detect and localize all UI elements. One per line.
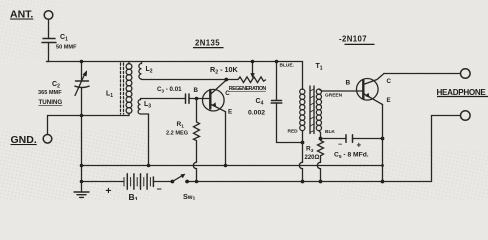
node R1-bottom junction: [195, 180, 199, 184]
node rail-bottom junction: [80, 180, 84, 184]
T1 core: [310, 86, 314, 134]
capacitor C2 (variable, tuning): [76, 80, 89, 82]
node rail-mid junction: [80, 164, 84, 168]
headphone terminal 1: [461, 69, 471, 79]
node C5-emitter junction: [381, 137, 385, 141]
svg-text:HEADPHONE: HEADPHONE: [437, 88, 487, 97]
node C2-top junction: [80, 60, 84, 64]
switch Sw1: [171, 180, 175, 184]
svg-text:GND.: GND.: [11, 134, 37, 146]
wire C2 to lower junction: [81, 88, 83, 116]
capacitor C3: [186, 94, 190, 103]
svg-text:ANT.: ANT.: [10, 9, 33, 21]
node tank bottom junction: [80, 114, 84, 118]
headphone terminal 2: [461, 111, 471, 121]
svg-text:−: −: [157, 184, 162, 194]
wire rail to T1 primary: [302, 62, 304, 90]
node collector-R2 junction: [224, 78, 228, 82]
svg-text:2N135: 2N135: [195, 39, 220, 48]
wire battery to left rail: [82, 181, 125, 183]
wire T1 primary return to bottom row: [299, 143, 302, 182]
capacitor C4: [271, 101, 282, 104]
svg-text:B: B: [194, 87, 199, 94]
svg-text:365 MMF: 365 MMF: [38, 90, 62, 96]
node R3-bottom junction: [319, 180, 323, 184]
wire rail to C4: [276, 62, 278, 101]
inductor L2: [141, 62, 143, 64]
resistor R3: [317, 139, 323, 182]
capacitor C5: [346, 135, 353, 142]
potentiometer R2 (regeneration): [238, 77, 266, 83]
wire T1 primary bottom lead: [302, 131, 304, 143]
wire to GND terminal: [48, 116, 82, 135]
node T1-return/bottom-row junction: [301, 180, 305, 184]
svg-text:C3 - 0.01: C3 - 0.01: [157, 86, 182, 93]
capacitor C5 wire: [321, 138, 383, 140]
node base-R1 junction: [195, 97, 199, 101]
transistor Q2 2N107: [357, 79, 379, 101]
wire L1 bottom: [82, 115, 130, 117]
svg-text:2.2 MEG: 2.2 MEG: [166, 131, 188, 137]
wire L3 top to C3: [141, 98, 186, 100]
svg-text:REGENERATION: REGENERATION: [229, 86, 267, 92]
svg-text:0.002: 0.002: [248, 110, 265, 117]
node emitter/bottom-row junction: [381, 180, 385, 184]
node emitter/mid-rail junction: [381, 164, 384, 167]
wire C1 to top rail: [47, 43, 49, 62]
mid rail wire: [82, 165, 383, 167]
node L3-rail junction: [147, 164, 151, 168]
svg-text:B: B: [346, 80, 351, 87]
transformer T1 primary: [300, 89, 305, 131]
wire collector Q2 to headphone: [384, 73, 460, 75]
capacitor C1: [42, 39, 56, 43]
node C4/T1-primary junction: [301, 141, 305, 145]
GND terminal: [43, 135, 52, 144]
wire emitter Q2 down: [382, 105, 384, 182]
wire ANT to C1: [48, 19, 50, 38]
inductor L1: [128, 62, 130, 65]
svg-text:E: E: [228, 109, 232, 116]
svg-text:C: C: [387, 78, 392, 85]
ground: [74, 192, 89, 197]
wire L3 bottom to mid rail: [141, 114, 149, 166]
transformer T1 secondary: [316, 89, 321, 131]
node C4-rail junction: [275, 60, 279, 64]
wire emitter Q1 down: [225, 112, 227, 166]
node emitter-rail junction: [224, 164, 228, 168]
wire C2 lead: [81, 62, 83, 82]
wire secondary top to base Q2: [319, 89, 362, 91]
core of antenna coil (dashed): [121, 63, 124, 114]
wire C4 to T1 bottom: [277, 103, 303, 143]
wire headphone return: [187, 116, 460, 182]
svg-text:50 MMF: 50 MMF: [56, 45, 77, 51]
svg-text:TUNING: TUNING: [39, 99, 63, 106]
svg-text:−: −: [338, 142, 342, 149]
inductor L3: [140, 99, 142, 100]
svg-text:+: +: [106, 186, 112, 197]
svg-text:+: +: [357, 141, 362, 150]
svg-text:GREEN: GREEN: [325, 93, 343, 99]
node secondary/R3/C5 junction: [319, 137, 323, 141]
wire L2 to R2: [142, 79, 239, 81]
svg-text:BLUE.: BLUE.: [280, 63, 294, 69]
svg-text:RED: RED: [288, 129, 299, 135]
top rail wire: [47, 61, 303, 63]
node R2 wiper-rail junction: [251, 60, 255, 64]
ANT terminal: [44, 11, 53, 20]
svg-text:BLK: BLK: [325, 129, 335, 135]
resistor R1: [193, 99, 199, 182]
svg-text:220Ω: 220Ω: [305, 155, 320, 161]
transistor Q1 2N135: [203, 89, 225, 111]
wire secondary bottom lead: [319, 131, 321, 139]
R2 wiper from rail: [252, 62, 254, 75]
wire switch to battery: [153, 181, 172, 183]
battery B1: [124, 178, 150, 187]
wire left rail down: [81, 116, 83, 193]
svg-text:-2N107: -2N107: [339, 35, 367, 44]
svg-text:E: E: [387, 97, 391, 104]
wire C3 to base: [189, 98, 210, 100]
svg-text:R2 - 10K: R2 - 10K: [210, 65, 238, 76]
